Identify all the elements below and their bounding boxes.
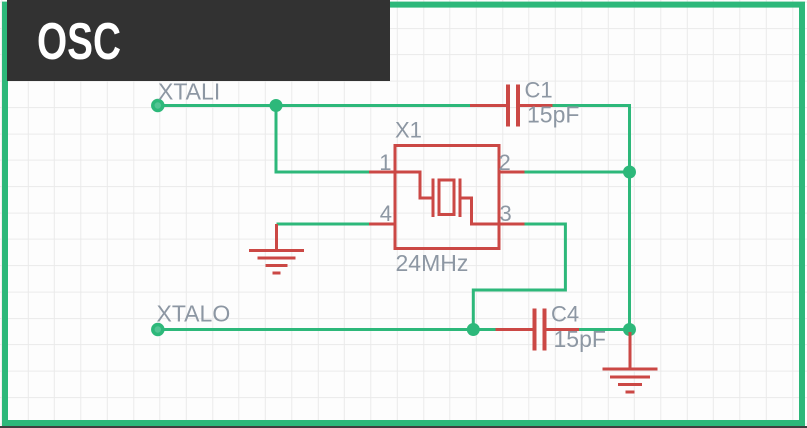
sheet title block OSC	[7, 0, 390, 81]
wire net XTALO: endpoint through C4 junction to right bus	[160, 328, 630, 331]
svg-text:3: 3	[500, 201, 512, 226]
bottom window strip	[0, 426, 807, 428]
pin number 2	[499, 150, 511, 175]
pin number 4	[380, 201, 392, 226]
capacitor C4	[496, 309, 580, 351]
ground symbol right (below C4 junction)	[603, 332, 658, 392]
wire net XTALI: endpoint to C1 left lead	[160, 104, 472, 107]
wire branch from XTALI junction down to pin 1	[275, 104, 371, 172]
pin number 3	[500, 201, 512, 226]
wire net XTALI: C1 right lead to corner and down right bus top	[552, 106, 630, 173]
node XTALI open endpoint	[153, 101, 163, 111]
svg-text:XTALO: XTALO	[157, 301, 231, 327]
pin number 1	[379, 150, 391, 175]
label C1 reference	[525, 78, 553, 103]
net label XTALO	[157, 301, 231, 327]
label C1 value 15pF	[527, 102, 579, 128]
label C4 reference	[551, 302, 579, 327]
svg-text:2: 2	[499, 150, 511, 175]
svg-text:15pF: 15pF	[554, 326, 606, 352]
svg-text:4: 4	[380, 201, 392, 226]
svg-text:C4: C4	[551, 302, 579, 327]
node XTALO open endpoint	[153, 325, 163, 335]
wire pin 2 to right bus	[523, 171, 630, 174]
svg-text:X1: X1	[395, 118, 422, 143]
wire pin 3 step down to XTALO junction	[473, 224, 565, 330]
wire pin 4 to ground	[277, 223, 371, 226]
junction at pin2 / right bus	[623, 166, 636, 179]
capacitor C1	[470, 85, 553, 127]
ground symbol left (pin 4)	[249, 224, 304, 273]
svg-text:15pF: 15pF	[527, 102, 579, 128]
wire right bus: pin2 junction down to XTALO junction	[628, 172, 631, 330]
svg-text:C1: C1	[525, 78, 553, 103]
label X1 reference	[395, 118, 422, 143]
junction at XTALO / right bus / ground	[623, 323, 636, 336]
label X1 value 24MHz	[396, 250, 469, 276]
svg-text:XTALI: XTALI	[158, 79, 220, 105]
junction at XTALI / pin1 branch	[270, 99, 283, 112]
crystal X1	[369, 146, 525, 249]
junction at XTALO / pin3 branch	[467, 323, 480, 336]
net label XTALI	[158, 79, 220, 105]
svg-text:1: 1	[379, 150, 391, 175]
label C4 value 15pF	[554, 326, 606, 352]
svg-text:24MHz: 24MHz	[396, 250, 469, 276]
svg-text:OSC: OSC	[37, 13, 121, 71]
